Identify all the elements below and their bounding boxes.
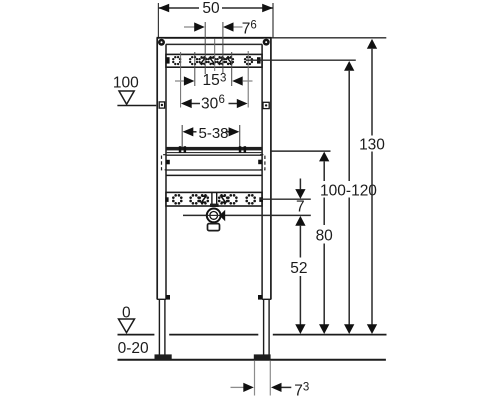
lower horizontal line: [166, 174, 262, 176]
svg-text:6: 6: [250, 20, 256, 32]
finished floor line: [118, 334, 155, 336]
leg step line left: [157, 298, 166, 300]
dimension 52 label: [290, 258, 309, 277]
center line through upper rail: [214, 39, 216, 72]
svg-text:100-120: 100-120: [320, 182, 377, 199]
dimension 50 extension line right: [272, 3, 274, 38]
level 100 line: [117, 105, 156, 107]
dimension 306 line: [191, 103, 200, 105]
dimension 153 right arrow: [232, 76, 243, 85]
dimension 50 extension line left: [157, 3, 159, 38]
plate bottom line: [166, 169, 262, 171]
dimension 80 label: [314, 225, 336, 244]
dimension 130 label: [357, 136, 387, 152]
lower rail glyph marks: [202, 196, 226, 202]
svg-text:7: 7: [294, 382, 303, 399]
frame top bar: [157, 37, 272, 39]
raw floor line: [118, 359, 386, 361]
svg-text:15: 15: [203, 72, 220, 89]
dimension 76 left arrow: [184, 26, 195, 28]
top bar screw left: [158, 39, 166, 47]
crossbar dark band: [166, 147, 262, 151]
mounting plate dashed box left tab: [162, 155, 167, 170]
dimension 153 extension line left: [194, 52, 196, 86]
mounting bolt right: [258, 160, 262, 165]
dimension 100-120 line: [344, 61, 354, 71]
dimension 153 extension line right: [231, 52, 233, 86]
left leg: [156, 38, 158, 300]
dimension 100-120 label: [320, 181, 379, 198]
leg step line right: [262, 298, 271, 300]
dimension 130 line: [367, 39, 377, 49]
left foot tube: [158, 300, 160, 356]
dimension 52 down arrow at floor: [295, 324, 305, 334]
svg-text:30: 30: [201, 95, 219, 112]
lower rail: [166, 192, 262, 206]
upper rail left nub: [166, 57, 169, 63]
dimension 5-38 line: [193, 131, 197, 133]
leg step nub right: [258, 295, 262, 300]
drain outer circle: [207, 209, 221, 223]
extension line rail2 level: [260, 198, 311, 200]
level 100 triangle: [119, 91, 134, 104]
svg-text:3: 3: [303, 381, 309, 393]
right foot plate: [254, 354, 271, 359]
svg-text:52: 52: [290, 260, 307, 277]
left leg connector square: [159, 102, 164, 108]
drain bracket mark: [210, 204, 219, 207]
left foot plate: [155, 354, 172, 359]
dimension 80 line: [319, 152, 329, 162]
mounting plate dashed box right tab: [260, 155, 265, 170]
lower rail holes: [172, 194, 256, 205]
extension line 80 level: [272, 150, 331, 152]
trap bracket: [208, 224, 220, 231]
drain clamp triangle: [219, 210, 225, 221]
upper rail center glyphs: [201, 58, 232, 63]
dimension 50 line: [158, 7, 199, 9]
svg-text:80: 80: [316, 228, 334, 245]
svg-text:100: 100: [113, 75, 139, 92]
dimension 73 right arrow: [271, 383, 282, 392]
right foot tube: [263, 300, 265, 356]
dimension 52 up arrow: [295, 216, 305, 226]
svg-text:130: 130: [359, 137, 385, 154]
lower rail right nub: [259, 197, 263, 202]
leg step nub left: [166, 295, 170, 300]
upper rail: [166, 54, 262, 67]
lower rail left nub: [165, 197, 168, 202]
dimension 153 left arrow: [175, 80, 185, 82]
dimension 76 extension line right: [222, 22, 224, 74]
dimension 5-38 extension line right: [239, 125, 241, 148]
dimension 73 extension line left: [254, 361, 256, 396]
crossbar clamp left: [179, 146, 182, 153]
svg-text:0-20: 0-20: [118, 340, 149, 357]
top bar screw right: [262, 39, 270, 47]
top extension line for 130: [272, 37, 387, 39]
mounting bolt left: [166, 160, 170, 165]
drain inner circle: [210, 212, 218, 220]
dimension 306 extension line right upper part: [247, 51, 249, 108]
svg-text:5-38: 5-38: [198, 125, 228, 142]
crossbar line 2: [166, 152, 262, 154]
level 0 triangle: [119, 319, 135, 333]
crossbar line 3: [166, 154, 262, 156]
svg-text:50: 50: [202, 0, 220, 17]
dimension 5-38 extension line left: [181, 125, 183, 148]
upper rail right nub: [257, 57, 261, 63]
dimension 306 extension line left upper part: [180, 52, 182, 108]
drain center line over circle: [207, 214, 222, 216]
dimension 76 extension line left: [204, 22, 206, 74]
svg-text:7: 7: [296, 199, 305, 216]
crossbar clamp right: [239, 146, 242, 153]
upper rail holes: [172, 56, 253, 65]
dimension 73 left arrow: [231, 386, 244, 388]
right leg: [270, 38, 272, 300]
right leg connector square: [263, 102, 269, 108]
rail extension line for 100-120: [246, 59, 356, 61]
dimension 73 extension line right: [269, 361, 271, 396]
drain level line: [183, 214, 311, 216]
svg-text:3: 3: [220, 72, 226, 84]
dimension 7 down arrow: [299, 179, 301, 190]
svg-text:7: 7: [242, 21, 251, 38]
svg-text:6: 6: [219, 94, 225, 106]
dimension 76 right arrow: [223, 22, 234, 31]
center line through lower rail: [211, 193, 213, 206]
